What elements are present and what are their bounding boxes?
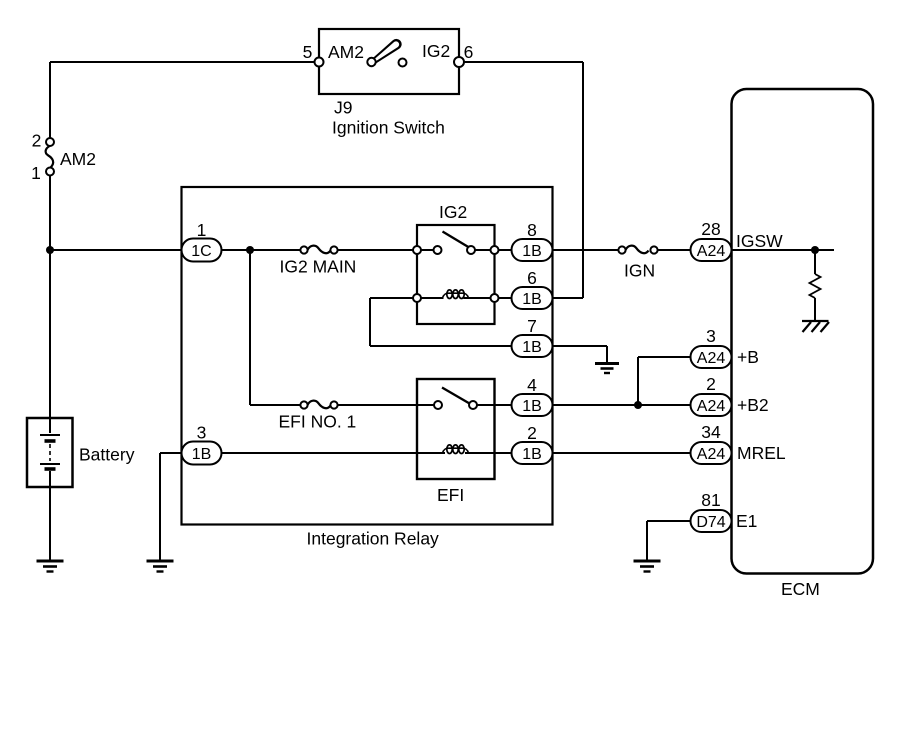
svg-text:IG2: IG2 xyxy=(439,202,467,222)
svg-text:+B: +B xyxy=(737,347,759,367)
svg-text:1B: 1B xyxy=(522,398,542,415)
svg-text:EFI: EFI xyxy=(437,485,464,505)
svg-text:28: 28 xyxy=(701,219,720,239)
svg-text:IGSW: IGSW xyxy=(736,231,783,251)
svg-text:AM2: AM2 xyxy=(60,149,96,169)
svg-text:2: 2 xyxy=(527,423,537,443)
svg-text:+B2: +B2 xyxy=(737,395,769,415)
svg-text:A24: A24 xyxy=(697,350,726,367)
svg-text:5: 5 xyxy=(303,42,313,62)
svg-text:1B: 1B xyxy=(192,446,212,463)
svg-text:Ignition Switch: Ignition Switch xyxy=(332,118,445,138)
svg-text:81: 81 xyxy=(701,490,720,510)
svg-text:A24: A24 xyxy=(697,446,726,463)
svg-text:AM2: AM2 xyxy=(328,42,364,62)
svg-text:2: 2 xyxy=(32,131,42,151)
svg-text:6: 6 xyxy=(464,42,474,62)
svg-text:Battery: Battery xyxy=(79,445,135,465)
svg-text:1: 1 xyxy=(197,220,207,240)
svg-text:J9: J9 xyxy=(334,98,352,118)
svg-text:A24: A24 xyxy=(697,398,726,415)
svg-text:MREL: MREL xyxy=(737,443,786,463)
svg-text:1B: 1B xyxy=(522,446,542,463)
svg-text:ECM: ECM xyxy=(781,579,820,599)
svg-text:4: 4 xyxy=(527,375,537,395)
svg-text:3: 3 xyxy=(197,423,207,443)
svg-text:1: 1 xyxy=(31,163,41,183)
svg-text:34: 34 xyxy=(701,422,721,442)
svg-text:1B: 1B xyxy=(522,339,542,356)
svg-text:IG2: IG2 xyxy=(422,41,450,61)
svg-text:7: 7 xyxy=(527,316,537,336)
svg-text:A24: A24 xyxy=(697,243,726,260)
svg-text:1B: 1B xyxy=(522,291,542,308)
svg-text:E1: E1 xyxy=(736,511,757,531)
svg-text:1B: 1B xyxy=(522,243,542,260)
svg-text:EFI NO. 1: EFI NO. 1 xyxy=(279,412,357,432)
svg-text:2: 2 xyxy=(706,374,716,394)
svg-text:Integration Relay: Integration Relay xyxy=(307,529,440,549)
svg-text:D74: D74 xyxy=(696,514,725,531)
svg-text:8: 8 xyxy=(527,220,537,240)
svg-text:1C: 1C xyxy=(191,243,211,260)
svg-text:6: 6 xyxy=(527,268,537,288)
svg-text:3: 3 xyxy=(706,326,716,346)
svg-text:IG2 MAIN: IG2 MAIN xyxy=(280,257,357,277)
svg-text:IGN: IGN xyxy=(624,261,655,281)
